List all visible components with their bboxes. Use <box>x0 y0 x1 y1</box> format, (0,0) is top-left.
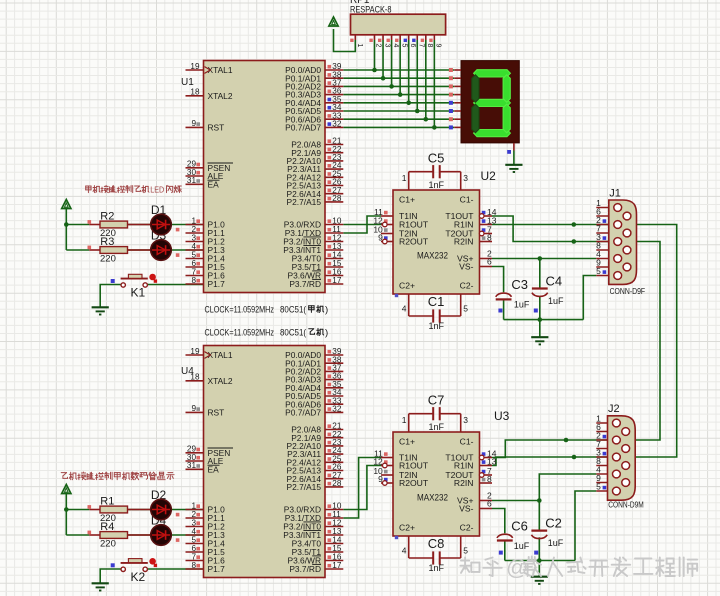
svg-text:8: 8 <box>426 44 433 48</box>
svg-text:P0.7/AD7: P0.7/AD7 <box>285 123 321 133</box>
svg-text:XTAL2: XTAL2 <box>208 376 233 386</box>
svg-text:1uF: 1uF <box>548 538 564 548</box>
svg-text:19: 19 <box>190 62 200 71</box>
svg-text:C1+: C1+ <box>399 437 415 447</box>
svg-text:19: 19 <box>190 347 200 356</box>
svg-text:C2+: C2+ <box>399 523 415 533</box>
svg-text:R1OUT: R1OUT <box>399 461 429 471</box>
svg-text:28: 28 <box>332 194 342 203</box>
svg-text:K1: K1 <box>131 286 146 300</box>
svg-text:C1+: C1+ <box>399 195 415 205</box>
svg-text:LED: LED <box>150 186 164 195</box>
svg-text:8: 8 <box>487 232 492 242</box>
svg-text:1uF: 1uF <box>514 541 530 551</box>
svg-text:C1-: C1- <box>460 195 474 205</box>
svg-text:R2IN: R2IN <box>454 478 474 488</box>
svg-text:17: 17 <box>332 561 342 570</box>
svg-text:C8: C8 <box>428 536 445 551</box>
svg-text:31: 31 <box>187 461 197 470</box>
svg-text:C1: C1 <box>428 294 445 309</box>
svg-text:U2: U2 <box>481 169 497 183</box>
svg-text:): ) <box>325 305 328 316</box>
svg-text:J2: J2 <box>608 403 620 415</box>
svg-text:6: 6 <box>409 44 416 48</box>
svg-text:8: 8 <box>191 561 196 570</box>
svg-text:R4: R4 <box>100 521 114 533</box>
svg-text:R2OUT: R2OUT <box>399 478 429 488</box>
svg-text:1uF: 1uF <box>514 300 530 310</box>
svg-text:5: 5 <box>596 482 601 492</box>
svg-text:5: 5 <box>596 266 601 276</box>
svg-text:R2IN: R2IN <box>454 237 474 247</box>
svg-text:3: 3 <box>383 44 390 48</box>
svg-text:13: 13 <box>487 456 497 466</box>
svg-text:C7: C7 <box>428 393 445 408</box>
svg-text:P3.7/RD: P3.7/RD <box>289 279 321 289</box>
svg-text:U3: U3 <box>494 409 510 423</box>
svg-text:J1: J1 <box>609 188 621 200</box>
svg-text:CONN-D9F: CONN-D9F <box>610 286 646 296</box>
svg-text:R3: R3 <box>100 236 114 248</box>
svg-text:6: 6 <box>487 256 492 266</box>
svg-text:1nF: 1nF <box>429 563 445 573</box>
svg-text:9: 9 <box>191 119 196 128</box>
svg-text:P2.7/A15: P2.7/A15 <box>287 482 322 492</box>
svg-text:1nF: 1nF <box>429 422 445 432</box>
svg-text:1: 1 <box>356 44 363 48</box>
svg-text:9: 9 <box>191 404 196 413</box>
svg-text:C6: C6 <box>511 518 528 533</box>
svg-text:4: 4 <box>402 304 407 314</box>
svg-text:5: 5 <box>463 304 468 314</box>
svg-text:28: 28 <box>332 479 342 488</box>
svg-text:C2-: C2- <box>460 523 474 533</box>
svg-text:17: 17 <box>332 276 342 285</box>
svg-text:VS-: VS- <box>459 262 473 272</box>
svg-text:R2OUT: R2OUT <box>399 237 429 247</box>
svg-text:XTAL2: XTAL2 <box>208 91 233 101</box>
svg-text:1: 1 <box>402 415 407 425</box>
svg-text:VS-: VS- <box>459 504 473 514</box>
svg-text:P0.7/AD7: P0.7/AD7 <box>285 408 321 418</box>
svg-text:C2+: C2+ <box>399 281 415 291</box>
svg-text:R1: R1 <box>100 496 114 508</box>
svg-text:K2: K2 <box>131 570 146 584</box>
svg-text:5: 5 <box>463 546 468 556</box>
svg-text:7: 7 <box>417 44 424 48</box>
svg-text:CLOCK=11.0592MHz: CLOCK=11.0592MHz <box>205 328 275 339</box>
svg-text:EA: EA <box>208 464 220 474</box>
svg-text:P1.7: P1.7 <box>208 279 226 289</box>
svg-text:1nF: 1nF <box>429 321 445 331</box>
svg-text:4: 4 <box>392 44 399 48</box>
svg-text:): ) <box>325 328 328 339</box>
svg-text:C5: C5 <box>428 151 445 166</box>
svg-text:8: 8 <box>191 276 196 285</box>
svg-text:80C51(: 80C51( <box>280 305 307 316</box>
svg-text:6: 6 <box>487 498 492 508</box>
svg-text:8: 8 <box>487 474 492 484</box>
svg-text:1uF: 1uF <box>548 296 564 306</box>
svg-text:U4: U4 <box>181 366 194 377</box>
svg-text:C2-: C2- <box>460 281 474 291</box>
svg-text:220: 220 <box>100 539 116 550</box>
svg-text:C1-: C1- <box>460 437 474 447</box>
svg-text:1: 1 <box>402 173 407 183</box>
svg-text:C2: C2 <box>545 516 562 531</box>
svg-text:2: 2 <box>375 44 382 48</box>
svg-text:EA: EA <box>208 179 220 189</box>
svg-text:P2.7/A15: P2.7/A15 <box>287 197 322 207</box>
svg-text:R2: R2 <box>100 211 114 223</box>
svg-text:RST: RST <box>208 123 225 133</box>
svg-text:32: 32 <box>332 405 342 414</box>
svg-text:4: 4 <box>402 546 407 556</box>
svg-text:9: 9 <box>435 44 442 48</box>
svg-text:RESPACK-8: RESPACK-8 <box>350 5 392 16</box>
svg-text:MAX232: MAX232 <box>417 493 448 504</box>
svg-text:P1.7: P1.7 <box>208 564 226 574</box>
svg-text:220: 220 <box>100 254 116 265</box>
svg-text:U1: U1 <box>181 77 194 88</box>
svg-text:CLOCK=11.0592MHz: CLOCK=11.0592MHz <box>205 305 275 316</box>
svg-text:C3: C3 <box>511 277 528 292</box>
svg-text:12: 12 <box>373 456 383 466</box>
svg-text:32: 32 <box>332 120 342 129</box>
svg-text:R1IN: R1IN <box>454 461 474 471</box>
svg-text:MAX232: MAX232 <box>417 251 448 262</box>
svg-text:31: 31 <box>187 176 197 185</box>
svg-text:C4: C4 <box>546 274 563 289</box>
svg-text:18: 18 <box>190 88 200 97</box>
svg-text:CONN-D9M: CONN-D9M <box>608 500 644 510</box>
svg-text:5: 5 <box>400 44 407 48</box>
svg-text:80C51(: 80C51( <box>280 328 307 339</box>
svg-text:1nF: 1nF <box>429 180 445 190</box>
svg-text:RST: RST <box>208 408 225 418</box>
svg-text:3: 3 <box>463 415 468 425</box>
svg-text:3: 3 <box>463 173 468 183</box>
svg-text:P3.7/RD: P3.7/RD <box>289 564 321 574</box>
